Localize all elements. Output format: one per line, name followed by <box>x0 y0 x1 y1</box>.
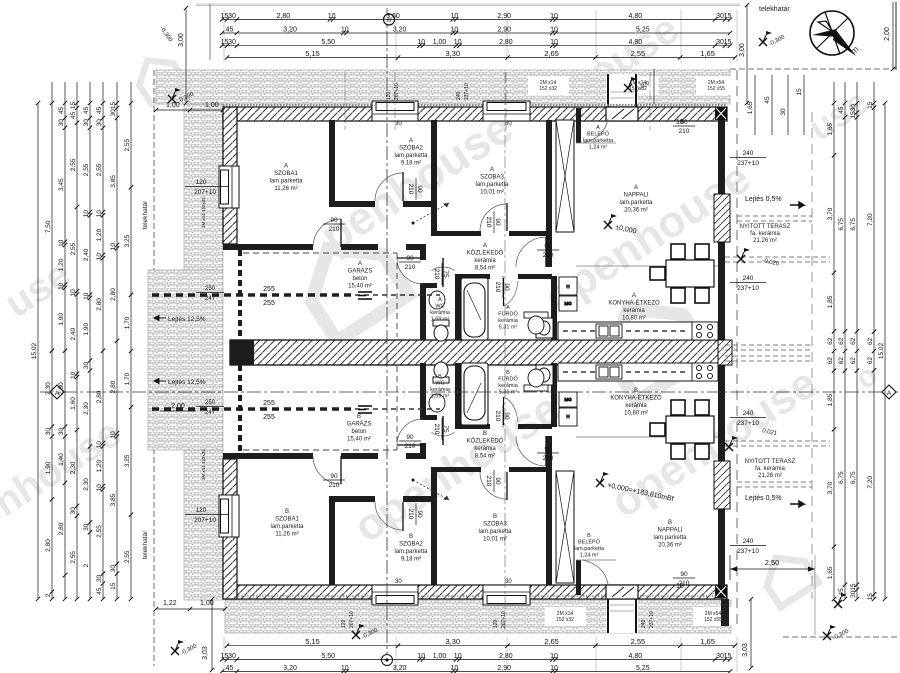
svg-text:2,55: 2,55 <box>70 158 77 171</box>
svg-text:1,40: 1,40 <box>58 453 65 466</box>
kitchen sink B <box>596 365 622 379</box>
door size szoba2 B <box>407 503 423 525</box>
top right small chain 1,65/45/30/15 cluster <box>747 75 804 135</box>
lejtes 0,5% label terrace A <box>745 196 804 208</box>
svg-text:3,70: 3,70 <box>827 207 834 220</box>
svg-text:45: 45 <box>226 665 234 672</box>
door nappali-kozlekedo A <box>516 237 546 267</box>
svg-text:207+10: 207+10 <box>194 189 216 196</box>
svg-text:B: B <box>483 431 487 437</box>
terrace slope arrow labels 0,020 A <box>762 258 781 268</box>
svg-text:A: A <box>490 167 494 173</box>
faint page top line <box>196 3 740 5</box>
room label wc A <box>430 297 451 323</box>
svg-text:A: A <box>483 243 487 249</box>
svg-text:1,20: 1,20 <box>96 459 103 472</box>
svg-text:2,80: 2,80 <box>277 13 291 20</box>
room label belepo A <box>583 125 614 151</box>
dim 3,00 top right vertical <box>739 3 749 105</box>
svg-text:30: 30 <box>110 565 117 573</box>
svg-text:1,20: 1,20 <box>58 258 65 271</box>
svg-text:207+10: 207+10 <box>501 611 507 628</box>
svg-text:WC: WC <box>435 381 444 387</box>
window szoba2 B bottom wall <box>372 585 418 605</box>
svg-text:2,80: 2,80 <box>499 39 513 46</box>
entry door belepo A top wall (panel with diagonals) <box>606 107 638 121</box>
svg-text:KONYHA-ÉTKEZŐ: KONYHA-ÉTKEZŐ <box>610 395 662 402</box>
window szoba3 A top wall <box>483 101 530 121</box>
szoba2 B door leaf <box>402 502 404 531</box>
svg-text:1,65: 1,65 <box>747 101 754 114</box>
svg-text:1,70: 1,70 <box>124 316 131 329</box>
svg-text:B: B <box>285 509 289 515</box>
svg-text:1,65: 1,65 <box>700 49 715 58</box>
svg-text:H: H <box>566 414 569 419</box>
svg-text:30: 30 <box>58 119 65 127</box>
svg-text:7,20: 7,20 <box>867 476 874 489</box>
svg-text:lam.parketta: lam.parketta <box>574 546 605 552</box>
svg-text:1,90: 1,90 <box>45 461 52 474</box>
belepo/nappali A floor line <box>576 142 616 144</box>
svg-text:3,03: 3,03 <box>202 646 209 660</box>
svg-text:210: 210 <box>329 482 340 489</box>
svg-text:1,60: 1,60 <box>70 397 77 410</box>
section symbol bottom <box>382 655 393 666</box>
level mark bottom center <box>352 624 380 641</box>
room label szoba3 A <box>475 167 509 196</box>
svg-text:NYITOTT TERASZ: NYITOTT TERASZ <box>745 459 796 465</box>
svg-text:3,85: 3,85 <box>110 175 117 188</box>
svg-text:beton: beton <box>351 429 366 435</box>
svg-text:62: 62 <box>827 337 834 345</box>
wall szoba1 A bottom right seg <box>406 244 426 250</box>
svg-text:A: A <box>634 185 638 191</box>
svg-text:1,59 m²: 1,59 m² <box>431 317 450 323</box>
svg-text:237+10: 237+10 <box>464 83 470 100</box>
svg-text:H: H <box>566 284 569 289</box>
property boundary right edge top <box>895 2 897 69</box>
window label t1 <box>539 80 557 92</box>
room label terasz A <box>740 224 791 244</box>
svg-text:kerámia: kerámia <box>623 308 645 314</box>
brick band left column lower <box>184 450 223 600</box>
dim 2,50 bottom right <box>730 555 815 635</box>
svg-text:B: B <box>493 514 497 520</box>
svg-text:8,54 m²: 8,54 m² <box>475 266 495 272</box>
svg-text:10,01 m²: 10,01 m² <box>483 537 507 543</box>
dim 3,03 bottom right vertical <box>742 597 753 670</box>
garage B E3 symbol <box>358 406 372 413</box>
svg-text:255: 255 <box>263 414 275 421</box>
window szoba1 B left wall <box>219 495 239 537</box>
svg-text:45: 45 <box>83 106 90 114</box>
middle wall right end cap on terrace <box>718 340 732 365</box>
svg-text:kerámia: kerámia <box>474 446 496 452</box>
svg-text:1,65: 1,65 <box>827 566 834 579</box>
svg-text:beton: beton <box>352 276 367 282</box>
svg-text:5,50: 5,50 <box>321 39 335 46</box>
svg-text:90: 90 <box>330 473 338 480</box>
section marker A left <box>50 385 64 399</box>
svg-text:2,80: 2,80 <box>58 522 65 535</box>
svg-text:lam.parketta: lam.parketta <box>475 182 509 188</box>
door szoba2 A arc <box>375 173 403 201</box>
svg-text:2,40: 2,40 <box>70 327 77 340</box>
svg-text:SZOBA1: SZOBA1 <box>274 171 298 177</box>
dimension chain bottom totals <box>225 637 737 648</box>
room label furdo A <box>498 305 519 331</box>
svg-text:1,90: 1,90 <box>83 322 90 335</box>
building bottom-right corner stub <box>721 599 729 626</box>
garage A parking dashed outline <box>243 253 397 337</box>
wall szoba3 B right / kamra <box>546 467 552 585</box>
dimension chain top row4 totals <box>225 49 737 60</box>
svg-text:3,00: 3,00 <box>178 33 185 47</box>
svg-text:210: 210 <box>485 476 492 487</box>
svg-text:15: 15 <box>110 102 117 110</box>
svg-text:210: 210 <box>433 424 440 435</box>
level mark -0,300 mid top <box>624 77 652 94</box>
room label garazs A <box>348 261 373 290</box>
terrace boundary dashed vertical near wall <box>736 70 738 628</box>
svg-text:1,70: 1,70 <box>124 372 131 385</box>
room label szoba1 B <box>270 509 304 538</box>
dimension chain right x=845 <box>838 101 847 601</box>
250/247 label lower <box>196 400 224 416</box>
property boundary bottom-right <box>783 636 898 638</box>
svg-text:20,36 m²: 20,36 m² <box>658 543 682 549</box>
svg-text:210: 210 <box>329 226 340 233</box>
door szoba3 B arc <box>480 472 507 499</box>
white label boxes in bands <box>528 76 569 95</box>
svg-text:45: 45 <box>70 111 77 119</box>
svg-text:2,00: 2,00 <box>171 403 185 410</box>
250/247 label upper <box>196 286 224 302</box>
svg-text:SZOBA2: SZOBA2 <box>399 542 423 548</box>
room label szoba2 A <box>394 138 428 167</box>
svg-text:90: 90 <box>416 510 423 518</box>
door size belepo B <box>673 571 695 587</box>
svg-text:15: 15 <box>867 593 874 601</box>
svg-text:A: A <box>506 305 510 311</box>
svg-text:255: 255 <box>263 300 275 307</box>
wall szoba1/szoba2 A vertical <box>329 120 335 207</box>
svg-text:lam.parketta: lam.parketta <box>583 138 614 144</box>
dimension chain left x=90 <box>83 101 92 601</box>
svg-text:3,20: 3,20 <box>283 665 297 672</box>
height label 240 terrace B top <box>730 410 766 427</box>
wall garage B right vertical lower <box>420 363 426 419</box>
svg-text:120: 120 <box>196 179 207 186</box>
svg-text:FÜRDŐ: FÜRDŐ <box>498 311 518 318</box>
exterior wall bottom <box>223 585 727 599</box>
wall szoba1 B top mid seg <box>341 453 378 459</box>
height label 240 terrace B bottom <box>730 538 766 555</box>
svg-text:62: 62 <box>850 357 857 365</box>
wc B door leaf <box>442 416 444 445</box>
dimension chain left x=38 <box>31 101 40 601</box>
svg-text:B: B <box>438 374 442 380</box>
wall szoba1 A bottom <box>223 244 313 250</box>
door size szoba1 B <box>323 473 345 489</box>
svg-text:2: 2 <box>45 593 52 597</box>
door nappali-kozlekedo B <box>516 436 546 466</box>
wall szoba1 A bottom mid seg <box>341 244 378 250</box>
door size szoba2 A <box>407 178 423 200</box>
svg-text:2,55: 2,55 <box>83 163 90 176</box>
1,22 1,00 labels bottom left <box>154 600 227 611</box>
svg-text:1,65: 1,65 <box>700 637 715 646</box>
svg-text:BELÉPŐ: BELÉPŐ <box>587 131 610 138</box>
svg-text:250: 250 <box>205 400 216 406</box>
door size szoba3 A <box>485 211 501 233</box>
svg-text:62: 62 <box>867 357 874 365</box>
room label garazs B <box>347 414 372 443</box>
svg-text:lam.parketta: lam.parketta <box>270 524 304 530</box>
svg-text:8,54 m²: 8,54 m² <box>475 454 495 460</box>
svg-text:FÜRDŐ: FÜRDŐ <box>498 376 518 383</box>
svg-text:6,75: 6,75 <box>850 471 857 484</box>
svg-text:45: 45 <box>58 106 65 114</box>
svg-text:210: 210 <box>433 269 440 280</box>
door size belepo A <box>673 119 695 135</box>
svg-text:75: 75 <box>442 270 449 278</box>
window label b2 <box>704 611 722 623</box>
toilet B <box>433 362 449 383</box>
dimension chain left x=131 <box>124 101 133 601</box>
wall szoba2/szoba3 A vertical <box>431 120 437 236</box>
entry door belepo B bottom wall (panel with diagonals) <box>606 585 638 599</box>
svg-text:3,20: 3,20 <box>283 27 297 34</box>
svg-text:kerámia: kerámia <box>498 383 519 389</box>
svg-text:2,80: 2,80 <box>96 390 103 403</box>
svg-text:KÖZLEKEDŐ: KÖZLEKEDŐ <box>467 438 504 445</box>
svg-text:18: 18 <box>676 119 684 126</box>
svg-text:30: 30 <box>110 109 117 117</box>
skylight dotted arrow A <box>412 203 450 225</box>
dimension chain top row3 <box>220 39 732 48</box>
garage door A (dashed, west opening) <box>238 250 242 338</box>
terrace sliding door A (hatched) <box>714 194 730 242</box>
wall wc/furdo B divider <box>455 363 461 427</box>
svg-text:237+10: 237+10 <box>737 285 759 292</box>
wall szoba3 B top right seg <box>509 467 552 472</box>
brick band bottom <box>225 600 731 633</box>
svg-text:SZOBA3: SZOBA3 <box>483 522 507 528</box>
window centreline x=345 top <box>344 72 346 130</box>
svg-text:11,26 m²: 11,26 m² <box>275 532 298 538</box>
svg-text:3,70: 3,70 <box>827 481 834 494</box>
svg-text:240: 240 <box>743 150 754 157</box>
wall garage B right vertical upper <box>420 443 426 453</box>
wall furdo A top seg <box>518 274 552 279</box>
wall konyha B left seg <box>546 436 552 467</box>
svg-text:90: 90 <box>680 571 688 578</box>
room label konyha A <box>608 293 660 322</box>
dimension chain top row2 <box>220 27 732 36</box>
svg-text:1,24 m²: 1,24 m² <box>580 553 599 559</box>
svg-text:75: 75 <box>442 425 449 433</box>
svg-text:2,90: 2,90 <box>497 27 511 34</box>
svg-text:62: 62 <box>838 357 845 365</box>
garage A E3 symbol <box>358 292 372 299</box>
svg-text:NAPPALI: NAPPALI <box>624 193 649 199</box>
dining table A with chairs <box>650 244 714 303</box>
wall furdo B right <box>551 363 557 427</box>
fridge/pantry boxes A <box>559 277 577 311</box>
wall belepo/nappali A vertical <box>576 108 581 143</box>
svg-text:2,30: 2,30 <box>70 461 77 474</box>
svg-text:B: B <box>357 414 361 420</box>
svg-text:B: B <box>409 534 413 540</box>
svg-text:30: 30 <box>228 13 236 20</box>
svg-text:152 x55: 152 x55 <box>704 617 722 623</box>
svg-text:A: A <box>596 125 600 131</box>
svg-text:9,18 m²: 9,18 m² <box>401 161 421 167</box>
door size furdo A <box>494 276 510 298</box>
svg-text:30: 30 <box>96 119 103 127</box>
room label terasz B <box>745 459 796 479</box>
svg-text:6,75: 6,75 <box>850 218 857 231</box>
svg-text:237+10: 237+10 <box>737 548 759 555</box>
door size wc B <box>433 418 449 440</box>
kitchen sink A <box>596 324 622 338</box>
svg-text:3,30: 3,30 <box>445 49 460 58</box>
svg-text:210: 210 <box>494 411 501 422</box>
svg-text:10,80 m²: 10,80 m² <box>622 316 646 322</box>
svg-text:15: 15 <box>867 101 874 109</box>
svg-text:Lejtés 0,5%: Lejtés 0,5% <box>745 495 782 502</box>
window szoba1 A left wall <box>219 166 239 208</box>
svg-text:30: 30 <box>58 428 65 436</box>
svg-text:90: 90 <box>406 255 414 262</box>
svg-text:247: 247 <box>205 410 216 416</box>
svg-text:3,03: 3,03 <box>742 643 749 657</box>
main section line vertical x=387 <box>386 8 388 666</box>
svg-text:Lejtés 12,5%: Lejtés 12,5% <box>168 379 206 386</box>
door szoba2 B arc <box>375 502 403 530</box>
svg-text:1,00: 1,00 <box>433 39 447 46</box>
wall szoba2/szoba3 B vertical <box>431 467 437 585</box>
svg-text:5,15: 5,15 <box>305 637 320 646</box>
window label t3 <box>707 80 725 92</box>
svg-text:KÖZLEKEDŐ: KÖZLEKEDŐ <box>467 250 504 257</box>
svg-text:BELÉPŐ: BELÉPŐ <box>578 539 601 546</box>
dimension extension lines top <box>224 10 737 62</box>
svg-text:237+10: 237+10 <box>737 160 759 167</box>
terrace boundary dashed vertical outer <box>811 112 813 599</box>
door size kozlekedo B <box>537 446 559 462</box>
svg-text:5,25: 5,25 <box>636 665 650 672</box>
wall furdo A right <box>551 276 557 340</box>
terrace slope arrow labels 0,021 B <box>762 428 779 437</box>
svg-text:210: 210 <box>407 509 414 520</box>
window centreline x=650 top <box>649 72 651 130</box>
svg-text:120: 120 <box>493 619 499 628</box>
svg-text:5,31 m²: 5,31 m² <box>499 390 518 396</box>
section marker right <box>882 385 896 399</box>
svg-text:2,80: 2,80 <box>110 288 117 301</box>
svg-text:A: A <box>358 261 362 267</box>
room label furdo B <box>498 370 519 396</box>
dim 2,00 far top right vertical <box>884 2 895 71</box>
wall szoba2 A bottom horizontal <box>329 201 375 207</box>
svg-text:1,22: 1,22 <box>163 600 177 607</box>
svg-text:2,80: 2,80 <box>110 380 117 393</box>
dimension chain left x=77 <box>70 101 79 601</box>
stove A (4 burners) <box>692 322 718 340</box>
built-in cupboard with X brace B <box>556 471 574 583</box>
washbasin A wc <box>429 291 445 309</box>
svg-text:30: 30 <box>83 523 90 531</box>
window label t2 <box>629 80 647 92</box>
svg-text:240: 240 <box>743 538 754 545</box>
svg-text:lam.parketta: lam.parketta <box>269 179 303 185</box>
svg-text:2,30: 2,30 <box>83 478 90 491</box>
svg-text:30: 30 <box>45 428 52 436</box>
svg-text:NYITOTT TERASZ: NYITOTT TERASZ <box>740 224 791 230</box>
washbasin furdo B <box>524 369 548 391</box>
svg-text:telekhatár: telekhatár <box>142 200 149 229</box>
middle dividing wall between units <box>230 340 725 365</box>
svg-text:fa. kerámia: fa. kerámia <box>755 466 785 472</box>
terrace dashed steps B <box>725 441 830 487</box>
dim block left border line <box>209 4 211 60</box>
svg-text:A: A <box>887 390 892 397</box>
door belepo A arc <box>583 119 608 143</box>
door szoba3 A arc <box>480 204 507 231</box>
svg-text:30: 30 <box>70 507 77 515</box>
door wc A <box>432 258 455 287</box>
svg-text:A: A <box>284 164 288 170</box>
svg-text:2,30: 2,30 <box>83 402 90 415</box>
height label 120 left A <box>185 179 229 196</box>
room label szoba2 B <box>394 534 428 563</box>
svg-text:fa. kerámia: fa. kerámia <box>750 231 780 237</box>
svg-text:2,65: 2,65 <box>544 49 559 58</box>
door size furdo B <box>494 405 510 427</box>
terrace dashed steps A <box>725 216 830 262</box>
dimension extension lines bottom <box>224 637 737 672</box>
door size szoba1 A <box>323 217 345 233</box>
washing machine B <box>536 365 553 385</box>
svg-text:2,55: 2,55 <box>631 637 646 646</box>
belepo/nappali B floor line <box>576 559 616 561</box>
brick band left wide middle (driveway) <box>148 270 223 450</box>
svg-text:Lejtés 12,5%: Lejtés 12,5% <box>168 316 206 323</box>
svg-text:90: 90 <box>544 243 552 250</box>
svg-text:30: 30 <box>83 362 90 370</box>
room label wc B <box>430 374 451 400</box>
room label nappali B <box>653 520 687 549</box>
room label belepo B <box>574 533 605 559</box>
svg-text:4,80: 4,80 <box>628 13 642 20</box>
svg-text:30: 30 <box>850 590 857 598</box>
wc A door leaf <box>442 258 444 287</box>
svg-text:SZOBA2: SZOBA2 <box>399 146 423 152</box>
dimension chain right x=834 <box>827 101 836 601</box>
door furdo B leaf+arc <box>503 397 505 425</box>
svg-text:telekhatár: telekhatár <box>142 530 149 559</box>
wall szoba2 A bottom right stub <box>403 201 437 207</box>
washbasin B wc <box>429 394 445 412</box>
svg-text:lam.parketta: lam.parketta <box>653 535 687 541</box>
svg-text:210: 210 <box>485 217 492 228</box>
svg-text:SZOBA1: SZOBA1 <box>275 517 299 523</box>
nappali/konyha B separation line <box>576 436 718 438</box>
svg-text:1,65: 1,65 <box>827 122 834 135</box>
property boundary top-right <box>730 68 897 70</box>
